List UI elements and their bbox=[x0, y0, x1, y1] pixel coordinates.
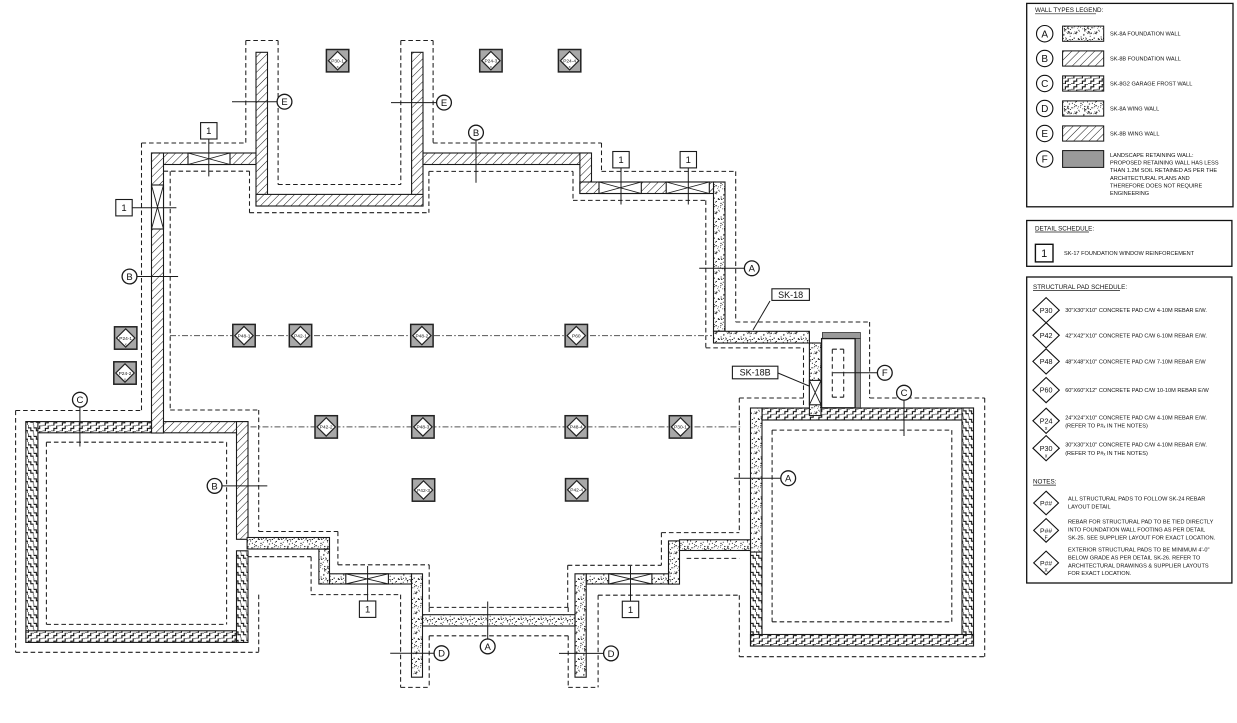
wire pad row line 1 bbox=[170, 335, 712, 337]
svg-text:1: 1 bbox=[618, 155, 623, 166]
svg-text:(REFER TO P#ₓ IN THE NOTES): (REFER TO P#ₓ IN THE NOTES) bbox=[1065, 451, 1148, 457]
svg-text:A: A bbox=[485, 642, 492, 653]
pad schedule P30x bbox=[1033, 436, 1059, 461]
svg-text:B: B bbox=[1041, 54, 1048, 65]
svg-text:x: x bbox=[490, 64, 492, 69]
wall F landscape retaining gray horizontal bbox=[822, 333, 860, 339]
node B left bbox=[122, 269, 137, 284]
svg-text:P60: P60 bbox=[1040, 386, 1053, 395]
wall SK-8B left vertical bbox=[152, 153, 164, 433]
svg-text:ARCHITECTURAL PLANS AND: ARCHITECTURAL PLANS AND bbox=[1110, 176, 1190, 182]
svg-text:INTO FOUNDATION WALL FOOTING A: INTO FOUNDATION WALL FOOTING AS PER DETA… bbox=[1068, 527, 1205, 533]
legend row B bbox=[1037, 50, 1181, 66]
wall SK-8B top-left horizontal bbox=[152, 153, 257, 165]
wall SK-8G2 right garage right band bbox=[962, 408, 974, 646]
wall SK-8A right leg bbox=[575, 574, 586, 677]
svg-text:P30: P30 bbox=[1040, 444, 1053, 453]
svg-text:F: F bbox=[1042, 155, 1048, 166]
svg-text:1: 1 bbox=[206, 126, 211, 137]
svg-text:SK-8A FOUNDATION WALL: SK-8A FOUNDATION WALL bbox=[1110, 32, 1181, 38]
wall SK-8B step corner bbox=[580, 153, 592, 194]
wall SK-8B top-middle horizontal bbox=[423, 153, 591, 165]
wall SK-8G2 left garage left band bbox=[26, 422, 38, 643]
detail 1 top-right a bbox=[613, 152, 629, 168]
svg-text:WALL TYPES LEGEND:: WALL TYPES LEGEND: bbox=[1035, 7, 1104, 14]
svg-text:SK-8G2 GARAGE FROST WALL: SK-8G2 GARAGE FROST WALL bbox=[1110, 82, 1192, 88]
svg-text:LAYOUT DETAIL: LAYOUT DETAIL bbox=[1068, 504, 1111, 510]
wall SK-8A wing left step bbox=[319, 549, 330, 584]
svg-text:B: B bbox=[126, 272, 132, 283]
svg-text:1: 1 bbox=[1041, 248, 1047, 260]
svg-text:24"X24"X10" CONCRETE PAD C/W 4: 24"X24"X10" CONCRETE PAD C/W 4-10M REBAR… bbox=[1065, 415, 1207, 421]
svg-text:ENGINEERING: ENGINEERING bbox=[1110, 191, 1149, 197]
window opening X top-left bbox=[188, 153, 230, 165]
wall SK-8A left leg bbox=[412, 574, 423, 677]
svg-text:48"X48"X10" CONCRETE PAD C/W 7: 48"X48"X10" CONCRETE PAD C/W 7-10M REBAR… bbox=[1065, 359, 1206, 365]
window opening X top-right 1 bbox=[599, 182, 641, 194]
wall SK-8A right vertical bbox=[714, 182, 726, 331]
detail schedule panel bbox=[1027, 221, 1232, 267]
wall SK-8A left opening band bbox=[330, 574, 412, 584]
svg-text:D: D bbox=[438, 649, 445, 660]
svg-text:P48-1: P48-1 bbox=[238, 333, 251, 339]
wall SK-8A wing right up-leg bbox=[669, 541, 680, 584]
svg-text:STRUCTURAL PAD SCHEDULE:: STRUCTURAL PAD SCHEDULE: bbox=[1033, 284, 1127, 291]
svg-text:B: B bbox=[473, 128, 479, 139]
wall F landscape retaining gray vertical bbox=[855, 339, 860, 408]
wall SK-8B U bottom band bbox=[256, 194, 423, 206]
wire leader lines for markers bbox=[80, 102, 904, 654]
svg-text:FOR EXACT LOCATION.: FOR EXACT LOCATION. bbox=[1068, 571, 1132, 577]
node C right garage bbox=[897, 385, 912, 400]
window opening X bottom-left bbox=[346, 574, 389, 584]
svg-text:P48: P48 bbox=[1040, 357, 1053, 366]
pad P42-3 row3 bbox=[412, 479, 434, 501]
svg-text:P42: P42 bbox=[1040, 331, 1053, 340]
svg-text:x: x bbox=[124, 376, 126, 381]
svg-text:SK-8B FOUNDATION WALL: SK-8B FOUNDATION WALL bbox=[1110, 57, 1181, 63]
svg-text:30"X30"X10" CONCRETE PAD C/W 4: 30"X30"X10" CONCRETE PAD C/W 4-10M REBAR… bbox=[1065, 308, 1207, 314]
wall SK-8G2 left garage right band lower bbox=[237, 551, 249, 643]
node E wing wall right bbox=[437, 95, 452, 110]
wall SK-8G2 right garage left band lower bbox=[751, 552, 763, 646]
svg-text:THEREFORE DOES NOT REQUIRE: THEREFORE DOES NOT REQUIRE bbox=[1110, 183, 1202, 189]
svg-text:30"X30"X10" CONCRETE PAD C/W 4: 30"X30"X10" CONCRETE PAD C/W 4-10M REBAR… bbox=[1065, 443, 1207, 449]
node D bottom left bbox=[434, 646, 449, 661]
pad P60 row1 bbox=[565, 324, 587, 346]
wire dashed footing outline, main hall and garages bbox=[16, 41, 985, 688]
note diamond P## bbox=[1034, 491, 1059, 515]
window opening X left wall bbox=[152, 185, 164, 229]
pad P48-4 row2 bbox=[565, 416, 587, 438]
svg-text:ARCHITECTURAL DRAWINGS & SUPPL: ARCHITECTURAL DRAWINGS & SUPPLIER LAYOUT… bbox=[1068, 563, 1209, 569]
wall SK-8A right opening band bbox=[586, 574, 668, 584]
svg-text:E: E bbox=[281, 97, 287, 108]
svg-text:P30-1: P30-1 bbox=[674, 425, 687, 431]
svg-text:A: A bbox=[749, 264, 756, 275]
legend row F bbox=[1037, 151, 1219, 198]
svg-text:1: 1 bbox=[121, 203, 126, 214]
svg-text:P42-3: P42-3 bbox=[417, 488, 430, 494]
pad schedule P24x bbox=[1033, 408, 1059, 433]
svg-text:P48-4: P48-4 bbox=[570, 425, 583, 431]
legend row D bbox=[1037, 100, 1160, 116]
structural pad schedule panel bbox=[1027, 277, 1232, 583]
svg-text:ALL STRUCTURAL PADS TO FOLLOW: ALL STRUCTURAL PADS TO FOLLOW SK-24 REBA… bbox=[1068, 497, 1205, 503]
wall SK-8B top-right lower band bbox=[580, 182, 715, 194]
wall SK-8B wing wall right E vertical bbox=[412, 52, 423, 206]
pad P48-3 row2 bbox=[412, 416, 434, 438]
svg-text:BELOW GRADE AS PER DETAIL SK-2: BELOW GRADE AS PER DETAIL SK-26. REFER T… bbox=[1068, 555, 1201, 561]
wall SK-8A wing left band bbox=[247, 538, 329, 550]
svg-text:(REFER TO P#ₓ IN THE NOTES): (REFER TO P#ₓ IN THE NOTES) bbox=[1065, 423, 1148, 429]
pad P30-1 top bbox=[326, 50, 348, 72]
svg-text:1: 1 bbox=[365, 605, 370, 616]
svg-text:LANDSCAPE RETAINING WALL:: LANDSCAPE RETAINING WALL: bbox=[1110, 153, 1194, 159]
svg-text:42"X42"X10" CONCRETE PAD C/W 6: 42"X42"X10" CONCRETE PAD C/W 6-10M REBAR… bbox=[1065, 333, 1207, 339]
pad P24-1 left bbox=[115, 327, 137, 349]
legend row A bbox=[1037, 26, 1181, 42]
pad P24-2 left bbox=[114, 362, 136, 384]
svg-text:P24: P24 bbox=[1040, 416, 1053, 425]
svg-text:P42-4: P42-4 bbox=[570, 488, 583, 494]
node D bottom right bbox=[604, 646, 619, 661]
note diamond P##F bbox=[1034, 519, 1059, 543]
svg-text:SK-8B WING WALL: SK-8B WING WALL bbox=[1110, 132, 1160, 138]
pad schedule P48 bbox=[1033, 349, 1059, 374]
svg-text:1: 1 bbox=[628, 605, 633, 616]
wall SK-8G2 right garage top band bbox=[762, 408, 974, 420]
svg-text:1: 1 bbox=[686, 155, 691, 166]
pad schedule P60 bbox=[1033, 378, 1059, 403]
svg-text:E: E bbox=[1041, 129, 1048, 140]
node C left garage bbox=[73, 392, 88, 407]
wire pad row line 2 bbox=[251, 426, 741, 428]
wall SK-8B left garage top-right band bbox=[164, 422, 249, 433]
pad P42-1 row1 bbox=[289, 324, 311, 346]
svg-text:x: x bbox=[569, 64, 571, 69]
svg-text:C: C bbox=[76, 395, 83, 406]
svg-text:F: F bbox=[882, 368, 888, 379]
svg-text:SK-8A WING WALL: SK-8A WING WALL bbox=[1110, 107, 1159, 113]
pad schedule P30 bbox=[1033, 298, 1059, 323]
svg-text:C: C bbox=[1041, 79, 1048, 90]
detail 1 top-right b bbox=[680, 152, 696, 168]
pad P48-1 row1 bbox=[233, 324, 255, 346]
wall SK-8B wing wall left E vertical bbox=[256, 52, 268, 206]
node B left garage bbox=[207, 479, 222, 494]
legend row C bbox=[1037, 75, 1193, 91]
svg-text:F: F bbox=[1045, 536, 1048, 542]
pad P42-2 row2 bbox=[315, 416, 337, 438]
node E wing wall left bbox=[277, 94, 292, 109]
svg-text:A: A bbox=[785, 474, 792, 485]
svg-text:E: E bbox=[441, 98, 447, 109]
label SK-18 bbox=[753, 289, 809, 330]
svg-text:D: D bbox=[608, 649, 615, 660]
svg-text:x: x bbox=[125, 341, 127, 346]
wall SK-8G2 left garage bottom band bbox=[26, 631, 247, 643]
svg-text:P60: P60 bbox=[572, 333, 581, 339]
detail 1 bottom-left bbox=[359, 601, 375, 617]
svg-text:P##: P## bbox=[1040, 528, 1052, 535]
svg-text:P48-2: P48-2 bbox=[415, 333, 428, 339]
svg-text:C: C bbox=[901, 388, 908, 399]
window opening X SK-18B wall bbox=[809, 380, 821, 404]
node A right garage bbox=[781, 471, 796, 486]
pad P24-3 top bbox=[480, 50, 502, 72]
wall SK-8A right garage left band upper bbox=[751, 408, 763, 552]
window opening X bottom-right bbox=[609, 574, 652, 584]
pad P24-4 top bbox=[558, 50, 580, 72]
svg-text:SK-25. SEE SUPPLIER LAYOUT FOR: SK-25. SEE SUPPLIER LAYOUT FOR EXACT LOC… bbox=[1068, 535, 1216, 541]
detail 1 left bbox=[116, 200, 132, 216]
svg-text:NOTES:: NOTES: bbox=[1033, 479, 1057, 486]
node B top bbox=[469, 125, 484, 140]
svg-text:P42-2: P42-2 bbox=[320, 425, 333, 431]
wall SK-8A center bottom band bbox=[423, 615, 576, 626]
window well outline bbox=[822, 339, 856, 408]
svg-text:THAN 1.2M SOIL RETAINED AS PER: THAN 1.2M SOIL RETAINED AS PER THE bbox=[1110, 168, 1217, 174]
wall SK-8G2 right garage bottom band bbox=[751, 635, 974, 647]
detail schedule symbol 1 bbox=[1035, 244, 1053, 262]
svg-text:D: D bbox=[1041, 104, 1048, 115]
svg-text:x: x bbox=[337, 64, 339, 69]
svg-text:A: A bbox=[1041, 29, 1048, 40]
detail 1 top-left bbox=[201, 123, 217, 139]
svg-text:P##: P## bbox=[1040, 501, 1052, 508]
wall SK-8A wing right top band bbox=[680, 540, 751, 551]
svg-text:PROPOSED RETAINING WALL HAS LE: PROPOSED RETAINING WALL HAS LESS bbox=[1110, 161, 1219, 167]
node A right bbox=[744, 261, 759, 276]
svg-text:SK-18: SK-18 bbox=[778, 290, 803, 300]
svg-text:60"X60"X12" CONCRETE PAD C/W 1: 60"X60"X12" CONCRETE PAD C/W 10-10M REBA… bbox=[1065, 388, 1209, 394]
svg-text:REBAR FOR STRUCTURAL PAD TO BE: REBAR FOR STRUCTURAL PAD TO BE TIED DIRE… bbox=[1068, 520, 1214, 526]
svg-text:SK-18B: SK-18B bbox=[740, 368, 771, 378]
node F retaining wall bbox=[877, 365, 892, 380]
wall SK-8G2 left garage top band bbox=[26, 422, 152, 433]
legend row E bbox=[1037, 125, 1160, 141]
label SK-18B bbox=[732, 366, 809, 386]
window opening X top-right 2 bbox=[666, 182, 709, 194]
wall SK-8A SK-18B vertical bbox=[809, 343, 821, 416]
svg-text:B: B bbox=[211, 481, 217, 492]
wall SK-8B left garage right band upper bbox=[237, 422, 249, 540]
pad P48-2 row1 bbox=[411, 324, 433, 346]
wall SK-8A SK-18 horizontal band bbox=[714, 331, 810, 343]
node A bottom bbox=[480, 639, 495, 654]
pad P30-1 row2 bbox=[669, 416, 691, 438]
svg-text:P##: P## bbox=[1040, 561, 1052, 568]
svg-text:SK-17 FOUNDATION WINDOW REINFO: SK-17 FOUNDATION WINDOW REINFORCEMENT bbox=[1064, 251, 1195, 257]
svg-text:EXTERIOR STRUCTURAL PADS TO BE: EXTERIOR STRUCTURAL PADS TO BE MINIMUM 4… bbox=[1068, 548, 1209, 554]
svg-text:DETAIL SCHEDULE:: DETAIL SCHEDULE: bbox=[1035, 225, 1094, 232]
pad schedule P42 bbox=[1033, 323, 1059, 348]
wall types legend panel bbox=[1027, 3, 1233, 206]
svg-text:P42-1: P42-1 bbox=[294, 333, 307, 339]
note diamond P##X bbox=[1034, 551, 1059, 575]
svg-text:P48-3: P48-3 bbox=[416, 425, 429, 431]
detail 1 bottom-right bbox=[622, 601, 638, 617]
svg-text:P30: P30 bbox=[1040, 306, 1053, 315]
pad P42-4 row3 bbox=[566, 479, 588, 501]
